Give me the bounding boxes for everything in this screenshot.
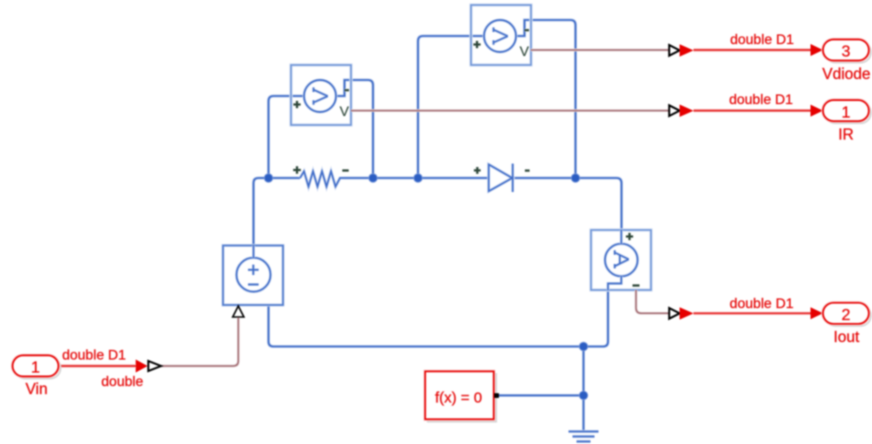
junction: bottom return wire to ground branch [579, 342, 588, 351]
controlled voltage source U4 [223, 246, 283, 306]
wire: ground stem [582, 347, 585, 432]
svg-text:double D1: double D1 [729, 91, 793, 107]
wire: voltage sensor2 - lead down to node [516, 20, 576, 178]
diode + label [474, 167, 481, 174]
physical signal line: Vin converter to source input [161, 318, 238, 367]
junction: node at diode + side / sensor2 + lead [413, 173, 422, 182]
svg-text:Iout: Iout [833, 329, 860, 346]
resistor R zigzag [300, 171, 344, 186]
ground symbol [569, 432, 599, 442]
resistor - label [342, 169, 348, 172]
svg-text:1: 1 [31, 360, 40, 377]
current sensor U3 [591, 230, 651, 290]
svg-text:V: V [340, 103, 350, 119]
PS-Simulink converter (IR row) [669, 105, 693, 117]
signal line converter to IR port [694, 109, 812, 112]
wire: voltage sensor1 + lead down to node [269, 96, 305, 178]
wire: main node A horizontal run (source top to current sensor top) [254, 178, 622, 246]
source signal-input triangle [233, 306, 244, 317]
svg-text:V: V [520, 43, 530, 59]
signal line converter to Iout port [694, 312, 812, 315]
svg-text:Vdiode: Vdiode [822, 66, 870, 83]
physical signal line: current sensor I output to converter [636, 290, 669, 313]
junction: node at resistor - terminal / sensor1 - lead [368, 173, 377, 182]
svg-text:double D1: double D1 [730, 31, 794, 47]
resistor + label [293, 166, 301, 174]
svg-text:Vin: Vin [25, 381, 47, 398]
diode D1 [489, 164, 513, 192]
PS-Simulink converter (Vdiode row) [669, 44, 693, 56]
svg-text:IR: IR [838, 126, 854, 143]
wire: voltage sensor1 - lead down to node [336, 80, 373, 178]
svg-text:double D1: double D1 [62, 347, 126, 363]
input port Vin [13, 355, 61, 398]
svg-text:f(x) = 0: f(x) = 0 [435, 389, 482, 406]
Simulink-PS converter (Vin row) [136, 360, 161, 373]
output port Vdiode [822, 40, 871, 83]
voltage sensor U2 (across diode) [471, 5, 531, 65]
wire: bottom return from source to current sensor [269, 290, 609, 347]
svg-text:double D1: double D1 [730, 295, 794, 311]
solver configuration block f(x)=0 [425, 371, 499, 421]
junction: solver connection to ground stem [579, 391, 588, 400]
junction: node at diode - side / sensor2 - lead [571, 173, 580, 182]
wire: voltage sensor2 + lead down to node [418, 36, 484, 178]
wire: solver block connection [499, 394, 584, 397]
signal line converter to Vdiode port [694, 48, 812, 51]
svg-text:1: 1 [842, 104, 851, 121]
signal line Vin port to converter [59, 364, 137, 367]
svg-text:2: 2 [842, 307, 851, 324]
svg-text:double: double [101, 373, 143, 389]
voltage sensor U1 (across resistor) [291, 65, 351, 125]
physical signal line: sensor1 V output to converter [351, 109, 669, 112]
svg-text:3: 3 [842, 44, 851, 61]
physical signal line: sensor2 V output to converter [531, 49, 669, 52]
junction: node A at resistor + terminal / sensor1 + lead [264, 173, 273, 182]
output port IR [823, 100, 871, 143]
diode - label [525, 169, 530, 172]
PS-Simulink converter (Iout row) [669, 307, 693, 319]
output port Iout [823, 303, 871, 346]
